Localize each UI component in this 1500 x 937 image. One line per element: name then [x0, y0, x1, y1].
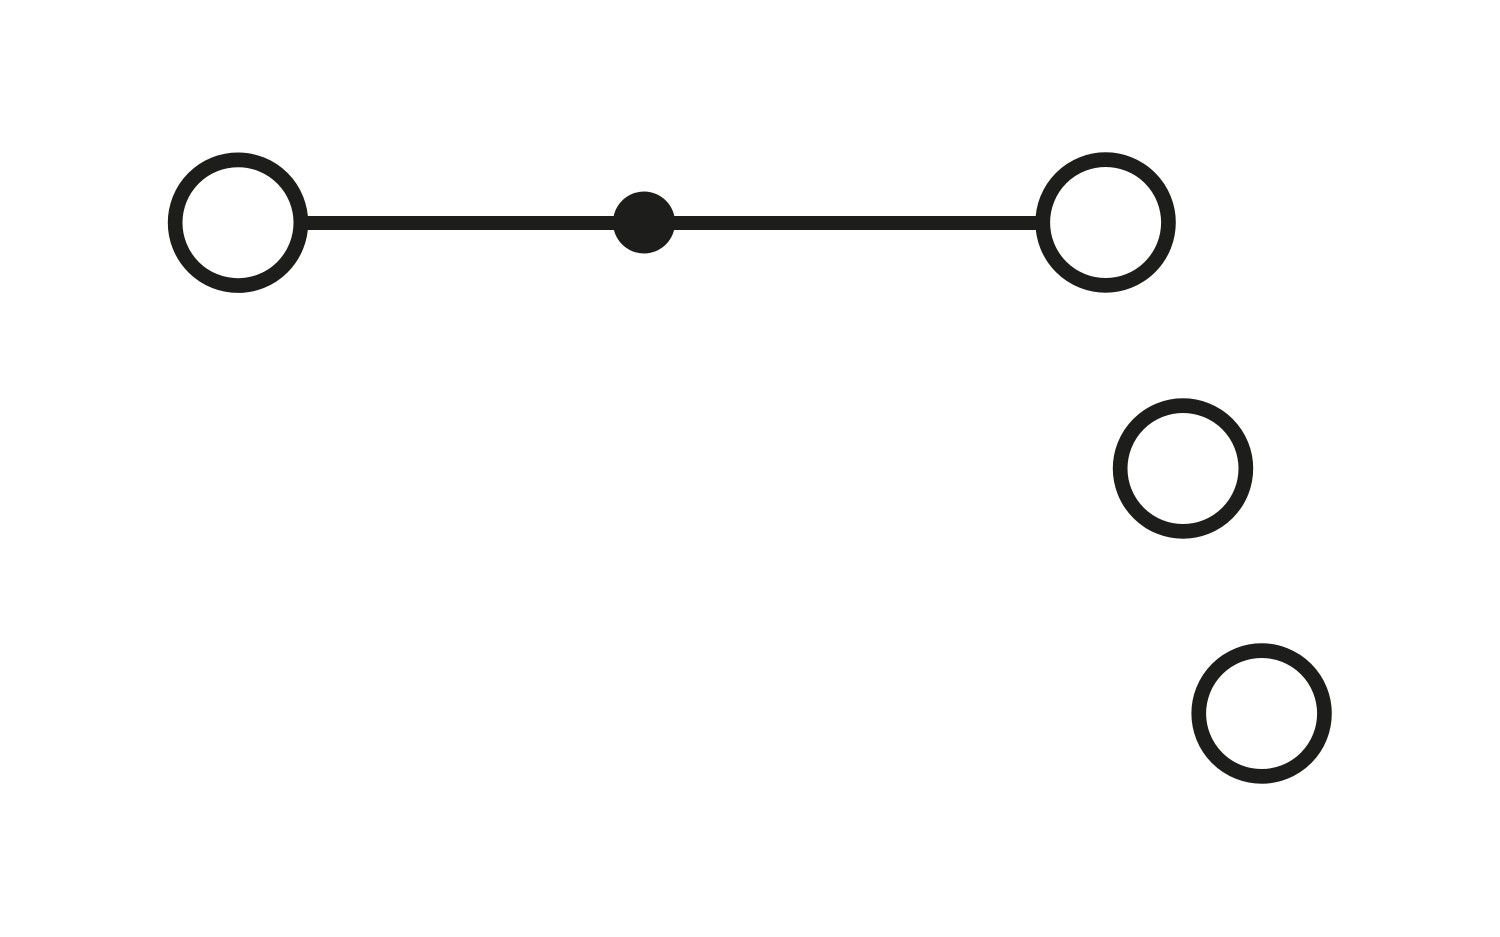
terminal circle 3 (middle right, unconnected): [1120, 406, 1246, 532]
wire connecting terminal 1 and terminal 2: [238, 216, 1106, 230]
terminal circle 4 (bottom right, unconnected): [1199, 651, 1325, 777]
terminal circle 1 (top left): [175, 160, 301, 286]
terminal circle 2 (top right): [1043, 160, 1169, 286]
junction dot on wire: [613, 192, 675, 254]
